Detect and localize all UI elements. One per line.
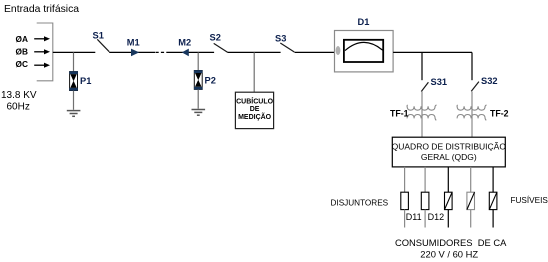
- svg-text:GERAL (QDG): GERAL (QDG): [421, 152, 477, 162]
- svg-text:P1: P1: [80, 76, 91, 86]
- wire: QDG to fuse 2: [470, 167, 472, 192]
- metering cubicle box: [235, 92, 273, 128]
- svg-text:FUSÍVEIS: FUSÍVEIS: [511, 195, 548, 205]
- meter D1 terminal blob: [336, 46, 341, 55]
- wire: below fuse 1: [447, 210, 449, 228]
- fuse 1 body: [445, 192, 453, 209]
- svg-text:D11: D11: [406, 212, 422, 222]
- svg-text:13.8 KV: 13.8 KV: [1, 90, 37, 101]
- switch S32 blade: [471, 82, 479, 92]
- fuse 3 body: [489, 192, 497, 209]
- wire: below fuse 2: [470, 210, 472, 228]
- wire: P2 to ground: [197, 90, 199, 109]
- meter D1 outer box: [335, 31, 394, 72]
- svg-text:DE: DE: [250, 106, 260, 113]
- arrow M2 (power flow left): [182, 49, 189, 57]
- breaker D11 body: [401, 192, 409, 209]
- switch S1: [97, 39, 109, 51]
- wire: QDG to fuse 3: [492, 167, 494, 192]
- svg-text:S1: S1: [93, 31, 104, 41]
- transformer TF-1 primary winding: [407, 105, 437, 110]
- svg-text:S2: S2: [210, 33, 221, 43]
- svg-text:60Hz: 60Hz: [7, 101, 30, 112]
- wire: below fuse 3: [492, 210, 494, 228]
- svg-text:ØC: ØC: [16, 59, 28, 69]
- meter D1 scale arc: [345, 42, 383, 50]
- wire: bus from source to S1: [53, 51, 96, 53]
- svg-text:M1: M1: [127, 37, 140, 47]
- wire: bus S2 to S3: [228, 51, 281, 53]
- svg-text:ØA: ØA: [16, 34, 28, 44]
- wire: S32 to TF-2: [471, 92, 473, 138]
- svg-text:S32: S32: [481, 76, 498, 86]
- label: CUBÍCULO DE MEDIÇÃO: [236, 96, 273, 121]
- svg-text:MEDIÇÃO: MEDIÇÃO: [238, 112, 272, 121]
- wire: bus D1 to right end: [393, 51, 472, 53]
- svg-text:Entrada trifásica: Entrada trifásica: [4, 4, 79, 15]
- wire: dashes to S2: [167, 51, 214, 53]
- svg-text:ØB: ØB: [16, 47, 28, 57]
- wire: dashed bus segment: [156, 51, 168, 53]
- transformer TF-2 primary winding: [457, 105, 487, 110]
- transformer TF-2 secondary winding: [457, 115, 486, 121]
- ground (P2): [192, 110, 206, 116]
- switch S31 blade: [421, 82, 428, 91]
- svg-text:TF-2: TF-2: [490, 108, 509, 118]
- svg-text:QUADRO DE DISTRIBUIÇÃO: QUADRO DE DISTRIBUIÇÃO: [392, 141, 507, 151]
- wire: QDG to breaker D12: [424, 167, 426, 192]
- svg-text:S31: S31: [431, 77, 448, 87]
- meter D1 inner face: [344, 40, 383, 62]
- breaker D12 body: [421, 192, 429, 209]
- fuse 2 body: [467, 192, 475, 209]
- distribution board QDG box: [392, 137, 505, 167]
- surge arrester P1: drop wire: [73, 52, 75, 71]
- wire: drop to S32: [471, 52, 473, 80]
- svg-text:TF-1: TF-1: [390, 108, 409, 118]
- svg-text:S3: S3: [275, 34, 286, 44]
- arrow: phase A: [34, 36, 50, 41]
- wire: QDG to fuse 1: [447, 167, 449, 192]
- surge arrester P2: drop wire: [197, 52, 199, 70]
- svg-text:DISJUNTORES: DISJUNTORES: [331, 198, 389, 207]
- svg-text:D1: D1: [358, 17, 370, 27]
- wire: QDG to breaker D11: [404, 167, 406, 192]
- ground (P1): [67, 111, 81, 117]
- svg-text:M2: M2: [178, 37, 191, 47]
- wire: drop to S31: [421, 52, 423, 80]
- surge arrester P2 body: [194, 70, 203, 89]
- wire: bus S3 to meter D1: [295, 51, 335, 53]
- surge arrester P1 body: [69, 71, 78, 90]
- svg-text:220 V / 60 HZ: 220 V / 60 HZ: [420, 248, 478, 259]
- svg-text:CUBÍCULO: CUBÍCULO: [236, 96, 273, 105]
- svg-text:CONSUMIDORES DE CA: CONSUMIDORES DE CA: [395, 237, 507, 248]
- wire: below D12: [424, 210, 426, 228]
- transformer TF-1 secondary winding: [407, 115, 436, 121]
- svg-text:D12: D12: [428, 212, 445, 222]
- wire: S31 to TF-1: [421, 92, 423, 138]
- wire: bus S1 to dashes: [109, 51, 155, 53]
- wire: P1 to ground: [73, 91, 75, 110]
- arrow M1 (power flow right): [131, 49, 139, 57]
- arrow: phase B: [34, 49, 50, 54]
- svg-text:P2: P2: [205, 75, 216, 85]
- switch S2: [214, 43, 228, 52]
- arrow: phase C: [34, 63, 50, 68]
- switch S3: [280, 43, 294, 52]
- wire: below D11: [404, 210, 406, 228]
- wire: drop to metering cubicle: [253, 52, 255, 92]
- input bracket (three-phase source enclosure): [37, 23, 53, 81]
- label: QUADRO DE DISTRIBUIÇÃO GERAL (QDG): [392, 141, 507, 162]
